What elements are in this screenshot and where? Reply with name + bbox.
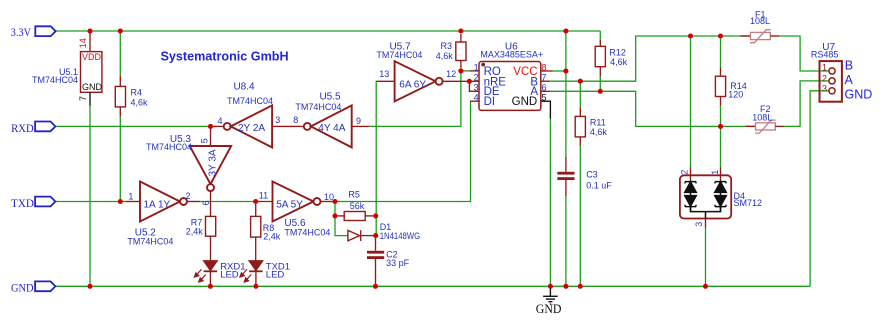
svg-text:R12: R12 <box>609 47 626 57</box>
resistor R4 <box>119 76 121 86</box>
node TXDinv/R8 junction <box>253 199 258 204</box>
inverter U5.2 <box>126 201 140 203</box>
svg-text:GND: GND <box>11 283 34 295</box>
wire R4 pull-up line <box>119 31 121 77</box>
svg-text:TM74HC04: TM74HC04 <box>227 96 273 106</box>
node R5 left junction <box>332 213 337 218</box>
node A/R14/D4 pin1 junction <box>718 124 723 129</box>
capacitor C2 <box>375 236 377 251</box>
svg-text:SM712: SM712 <box>734 198 763 208</box>
U6 pin3 stub <box>469 90 479 92</box>
inverter U5.3 <box>210 126 212 146</box>
wire U5.7 in to R5/D1/C2 node <box>375 81 377 235</box>
svg-text:4,6k: 4,6k <box>131 97 149 107</box>
svg-text:0.1 uF: 0.1 uF <box>586 180 612 190</box>
wire U5.2 out to U5.6 in <box>200 201 255 203</box>
port GND <box>35 281 55 291</box>
svg-text:DI: DI <box>484 96 496 108</box>
inverter U8.4 <box>211 125 224 127</box>
svg-text:5: 5 <box>542 93 547 103</box>
wire VCC pin8 to rail and C3 <box>552 70 566 72</box>
wire R11 drop <box>579 81 581 108</box>
node nRE/DE junction <box>467 79 472 84</box>
svg-text:2,4k: 2,4k <box>186 226 204 236</box>
TVS D4 box <box>680 175 731 218</box>
wire TXD line <box>56 201 127 203</box>
inverter U5.5 <box>304 123 311 130</box>
svg-text:3: 3 <box>474 83 479 93</box>
wire 3.3V rail <box>56 30 601 32</box>
connector U7 RS485 <box>820 61 842 102</box>
resistor R3 <box>460 34 462 42</box>
node B/R14 junction <box>718 33 723 38</box>
svg-text:3Y 3A: 3Y 3A <box>208 149 219 176</box>
port RXD <box>35 122 55 132</box>
svg-text:2: 2 <box>680 170 690 175</box>
wire U5.1 supply drop <box>89 106 91 287</box>
capacitor C3 <box>565 157 567 172</box>
wire RXD line <box>55 125 210 127</box>
port TXD <box>35 197 55 207</box>
fuse F1 <box>741 35 751 37</box>
wire U5.7 out to nRE/DE <box>443 80 470 82</box>
svg-text:2: 2 <box>474 73 479 83</box>
svg-text:1: 1 <box>710 170 720 175</box>
U6 pin7 stub <box>541 80 550 82</box>
power flag U5.1 pin14 lead <box>89 31 91 52</box>
wire R12 drop <box>599 66 601 68</box>
svg-text:GND: GND <box>512 96 538 108</box>
svg-text:108L: 108L <box>752 113 772 123</box>
svg-text:R5: R5 <box>348 189 360 199</box>
U6 pin5 stub <box>541 101 551 118</box>
fuse F2 <box>746 125 756 127</box>
wire U8.4 pin3 to U5.5 pin8 <box>272 125 304 127</box>
svg-text:1: 1 <box>474 62 479 72</box>
svg-text:5A 5Y: 5A 5Y <box>276 199 303 210</box>
svg-text:1: 1 <box>128 192 133 202</box>
svg-text:14: 14 <box>78 38 88 48</box>
svg-text:B: B <box>845 59 853 73</box>
U6 pin4 stub <box>470 100 479 102</box>
wire D4 pin2 drop <box>690 36 692 168</box>
port 3.3V <box>35 26 55 36</box>
node B/R11 junction <box>578 79 583 84</box>
resistor R11 <box>575 116 585 136</box>
wire F1 to U7 pin1 <box>779 36 830 71</box>
resistor R5 <box>335 215 344 217</box>
svg-text:11: 11 <box>259 191 268 201</box>
svg-text:RXD: RXD <box>11 123 34 135</box>
LED TXD1 <box>249 261 263 271</box>
LED TXD1 arrows <box>240 269 251 282</box>
wire U6 pin5 to GND <box>549 118 551 286</box>
LED RXD1 arrows <box>194 269 205 282</box>
svg-text:7: 7 <box>78 96 88 101</box>
svg-text:6: 6 <box>542 83 547 93</box>
svg-text:4,6k: 4,6k <box>610 57 628 67</box>
wire U5.6 out to R5 left <box>334 202 336 216</box>
svg-text:4,6k: 4,6k <box>590 127 608 137</box>
svg-text:4: 4 <box>474 93 479 103</box>
inverter U5.6 <box>256 201 273 203</box>
power flag U5.1 box <box>81 52 102 93</box>
D4 bottom tie <box>691 207 721 219</box>
node 3.3V/C3 junction <box>563 28 568 33</box>
svg-text:10: 10 <box>324 192 334 202</box>
IC U6 MAX3485 <box>479 62 541 111</box>
svg-text:3.3V: 3.3V <box>11 27 32 39</box>
svg-text:R4: R4 <box>131 88 143 98</box>
D4 pin1 lead <box>720 168 722 181</box>
svg-text:A: A <box>845 73 854 87</box>
svg-text:56k: 56k <box>350 201 365 211</box>
wire R14 bottom to A and D4 pin1 <box>720 105 722 168</box>
svg-text:TM74HC04: TM74HC04 <box>32 75 78 85</box>
wire U5.6 out node to DI <box>335 101 471 201</box>
power flag U5.1 pin7 lead <box>89 92 91 105</box>
svg-text:LED: LED <box>220 269 239 280</box>
svg-text:TM74HC04: TM74HC04 <box>376 50 422 60</box>
svg-text:TXD: TXD <box>11 198 34 210</box>
node GND/RXD1 LED junction <box>208 284 213 289</box>
node VCC pin8 junction <box>563 68 568 73</box>
node GND/C2 junction <box>373 284 378 289</box>
svg-text:6: 6 <box>201 200 211 205</box>
svg-text:R3: R3 <box>440 41 452 51</box>
U6 pin2 stub <box>469 80 479 82</box>
svg-text:TM74HC04: TM74HC04 <box>295 102 341 112</box>
wire GND riser to U7 pin3 <box>810 91 829 286</box>
resistor R7 <box>206 216 216 236</box>
svg-text:9: 9 <box>356 116 361 126</box>
D4 right diode pair <box>715 180 727 211</box>
svg-text:3: 3 <box>694 222 704 227</box>
ground symbol <box>543 286 558 304</box>
svg-text:TM74HC04: TM74HC04 <box>127 237 173 247</box>
svg-text:TM74HC04: TM74HC04 <box>146 142 192 152</box>
svg-text:U5.5: U5.5 <box>319 92 341 103</box>
U6 pin6 stub <box>541 90 550 92</box>
svg-text:33 pF: 33 pF <box>386 258 410 268</box>
svg-text:6A 6Y: 6A 6Y <box>399 79 426 90</box>
diode D1 <box>348 230 360 240</box>
D4 left diode pair <box>685 180 697 211</box>
svg-text:1: 1 <box>822 62 827 72</box>
svg-text:C3: C3 <box>586 170 598 180</box>
resistor R8 <box>255 204 257 216</box>
wire R5 left down to D1 anode <box>335 216 348 236</box>
wire B net pin7 to F1 route <box>549 36 751 81</box>
svg-text:TM74HC04: TM74HC04 <box>284 228 330 238</box>
svg-text:2: 2 <box>822 73 827 83</box>
svg-text:120: 120 <box>728 90 743 100</box>
svg-text:Systematronic GmbH: Systematronic GmbH <box>161 50 289 64</box>
svg-text:13: 13 <box>379 69 389 79</box>
svg-text:4: 4 <box>218 116 223 126</box>
node GND/R11 junction <box>578 284 583 289</box>
svg-text:108L: 108L <box>750 16 770 26</box>
svg-text:1N4148WG: 1N4148WG <box>380 231 421 241</box>
inverter U5.7 <box>376 80 394 82</box>
svg-text:4Y 4A: 4Y 4A <box>318 123 345 134</box>
svg-text:GND: GND <box>82 82 103 92</box>
svg-text:VDD: VDD <box>82 52 102 62</box>
node R5 right junction <box>373 213 378 218</box>
resistor R12 <box>599 40 601 46</box>
svg-text:4,6k: 4,6k <box>436 51 454 61</box>
node GND/TXD1 LED junction <box>253 284 258 289</box>
wire GND rail <box>56 285 810 287</box>
node GND/U6 pin5 junction <box>548 284 553 289</box>
svg-text:7: 7 <box>542 73 547 83</box>
resistor R14 <box>720 68 722 77</box>
node 3.3V/R3 junction <box>458 28 463 33</box>
wire D4 pin3 to GND <box>705 227 707 286</box>
svg-text:2: 2 <box>186 191 191 201</box>
svg-text:RS485: RS485 <box>811 50 839 60</box>
wire R14 top lead from B <box>720 36 722 68</box>
svg-text:1A 1Y: 1A 1Y <box>144 199 171 210</box>
LED RXD1 <box>203 261 217 271</box>
node TXD/R4 junction <box>118 199 123 204</box>
node B/D4 pin2 junction <box>688 33 693 38</box>
node A/R12 junction <box>598 89 603 94</box>
node 3.3V/R4 junction <box>118 28 123 33</box>
svg-text:5: 5 <box>199 138 209 143</box>
node GND/C3 junction <box>563 284 568 289</box>
svg-text:GND: GND <box>845 88 873 102</box>
wire 3.3V rail end drop to R12 <box>599 31 601 41</box>
wire A net pin6 to F2 route <box>549 91 756 126</box>
node GND/U5.1 junction <box>87 284 92 289</box>
D4 pin3 lead <box>705 219 707 228</box>
svg-text:MAX3485ESA+: MAX3485ESA+ <box>480 50 543 60</box>
svg-text:12: 12 <box>446 69 456 79</box>
svg-text:3: 3 <box>822 83 827 93</box>
wire F2 to U7 pin2 <box>784 81 830 127</box>
svg-text:LED: LED <box>266 269 285 280</box>
node D1 cathode junction <box>373 233 378 238</box>
node RXD/U8.4/U5.3 junction <box>208 124 213 129</box>
svg-text:U8.4: U8.4 <box>233 82 255 93</box>
D4 pin2 lead <box>690 168 692 181</box>
wire RO net R3 to pin9 <box>460 66 462 71</box>
U6 pin1 stub <box>470 70 479 72</box>
U6 pin8 stub <box>541 70 553 72</box>
node RO junction <box>458 68 463 73</box>
svg-text:3: 3 <box>275 115 280 125</box>
svg-text:8: 8 <box>542 62 547 72</box>
svg-text:GND: GND <box>536 302 562 316</box>
node U5.6 out junction <box>332 199 337 204</box>
node GND/D4 junction <box>703 284 708 289</box>
svg-text:2Y 2A: 2Y 2A <box>238 123 265 134</box>
node 3.3V/U5.1 junction <box>87 28 92 33</box>
svg-text:2,4k: 2,4k <box>263 232 281 242</box>
svg-text:8: 8 <box>293 115 298 125</box>
